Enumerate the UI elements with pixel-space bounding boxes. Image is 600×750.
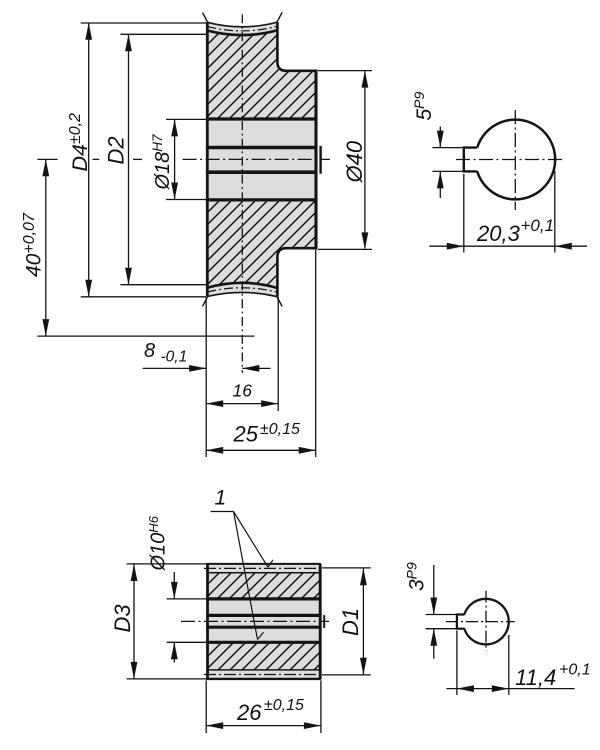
dimension 25 arrow left <box>206 447 223 454</box>
svg-text:16: 16 <box>233 381 253 401</box>
dimension dia10 extension line bottom <box>167 641 207 643</box>
pitch dash-dot arc top <box>207 26 277 31</box>
extension line right face down <box>277 297 279 411</box>
dimension D4 line <box>88 23 90 297</box>
svg-text:+0,1: +0,1 <box>521 216 555 235</box>
horizontal centerline segment b <box>93 158 100 160</box>
pinion horizontal centerline <box>181 620 329 622</box>
dimension 25 arrow right <box>299 447 316 454</box>
svg-text:20,3: 20,3 <box>476 221 521 246</box>
dimension 3P9 arrow top <box>430 598 437 615</box>
side view keyway slot <box>464 148 477 172</box>
pinion pitch dash-dot line top <box>204 567 323 569</box>
dimension D4 extension line bottom <box>81 296 206 298</box>
vertical centerline <box>241 14 243 373</box>
dimension 40 line <box>45 159 47 336</box>
worm wheel upper hatched area <box>207 30 315 119</box>
corner tick bottom-right <box>277 297 282 307</box>
side view bore circle with keyway gap <box>477 120 555 200</box>
dimension dia40 line <box>364 71 366 249</box>
dimension 3P9 arrow bottom <box>430 629 437 646</box>
worm axis line <box>37 335 254 337</box>
dimension 20,3 arrow left <box>447 243 464 250</box>
dimension D3 line <box>133 564 135 679</box>
dimension 3P9 line upper <box>433 565 435 615</box>
dimension D1 arrow bottom <box>360 658 367 675</box>
small bore circle with keyway gap <box>464 599 508 645</box>
svg-text:26: 26 <box>236 700 262 725</box>
dimension dia18 line <box>174 119 176 199</box>
part label leader to keyway <box>234 512 264 640</box>
pinion left face outline <box>206 564 209 679</box>
pinion bore bottom edge line <box>206 641 321 644</box>
pinion tip line bottom <box>206 678 321 680</box>
keyway lower edge line <box>206 170 317 174</box>
worm wheel tip thin arc bottom <box>207 292 277 296</box>
pinion right face outline <box>319 564 322 679</box>
dimension 11,4 extension line right <box>508 635 510 695</box>
extension line hub face down <box>315 250 317 457</box>
svg-text:8: 8 <box>144 340 155 362</box>
dimension dia40 extension line bottom <box>318 248 372 250</box>
dimension 26 extension line right <box>320 680 322 733</box>
dimension 3P9 extension line top <box>426 614 465 616</box>
dimension 26 extension line left <box>205 680 207 733</box>
dimension 26 arrow right <box>304 722 321 729</box>
dimension D3 arrow top <box>131 564 138 581</box>
dimension dia40 extension line top <box>318 70 372 72</box>
bore top edge line <box>206 117 317 120</box>
svg-text:D1: D1 <box>338 608 363 636</box>
dimension 25 line <box>206 449 316 451</box>
dimension 5P9 arrow top <box>437 131 444 148</box>
dimension D1 extension line top <box>322 567 371 569</box>
horizontal centerline segment c <box>133 158 142 160</box>
dimension D1 arrow top <box>360 568 367 585</box>
svg-text:D3: D3 <box>110 604 135 633</box>
dimension 16 arrow right <box>261 400 278 407</box>
dimension 40 arrow bottom <box>42 319 49 336</box>
dimension 20,3 arrow right <box>555 243 572 250</box>
svg-text:±0,15: ±0,15 <box>260 421 300 438</box>
pitch dash-dot arc bottom <box>207 288 277 292</box>
svg-text:1: 1 <box>215 487 227 510</box>
dimension D2 arrow top <box>125 34 132 51</box>
right face outline with fillet and step top <box>277 22 317 71</box>
dimension dia18 extension line bottom <box>166 199 207 201</box>
dimension D1 extension line bottom <box>322 674 371 676</box>
pinion sectional view body fill <box>208 564 320 679</box>
corner tick bottom-left <box>203 296 208 306</box>
dimension dia40 arrow bottom <box>362 232 369 249</box>
svg-text:+0,1: +0,1 <box>559 662 591 679</box>
dimension 5P9 extension line top <box>432 147 464 149</box>
side view horizontal centerline <box>456 159 565 161</box>
dimension dia10 extension line top <box>167 598 207 600</box>
dimension D3 extension line top <box>127 563 207 565</box>
horizontal centerline segment a <box>37 158 57 160</box>
small keyway slot <box>457 615 464 629</box>
dimension dia18 arrow top <box>171 119 178 136</box>
dimension 3P9 line lower <box>433 629 435 659</box>
dimension D2 line <box>128 34 130 284</box>
dimension D4 arrow top <box>85 23 92 40</box>
dimension D2 arrow bottom <box>125 268 132 285</box>
keyway upper edge line <box>206 146 317 150</box>
dimension 8 line right <box>242 367 270 369</box>
side view vertical centerline <box>514 110 516 210</box>
svg-text:25: 25 <box>233 422 259 447</box>
dimension dia18 arrow bottom <box>171 183 178 200</box>
svg-text:±0,15: ±0,15 <box>264 697 304 714</box>
dimension D1 line <box>362 568 364 675</box>
dimension dia10 line lower <box>173 642 175 662</box>
dimension 20,3 extension line left <box>463 174 465 253</box>
worm wheel throat thick arc top <box>207 30 277 35</box>
part label 1 underline <box>211 511 234 513</box>
dimension 3P9 extension line bottom <box>426 628 465 630</box>
dimension 16 arrow left <box>206 400 223 407</box>
part label leader to pitch line <box>234 512 274 568</box>
horizontal centerline main <box>183 158 330 160</box>
pinion root line top <box>208 572 320 574</box>
worm wheel sectional view body fill <box>207 22 315 297</box>
dimension 26 line <box>206 725 321 727</box>
pinion keyway upper edge line <box>206 614 321 617</box>
dimension 8 arrow left <box>189 365 206 372</box>
svg-text:11,4: 11,4 <box>515 665 556 690</box>
dimension 5P9 line upper <box>439 127 441 148</box>
worm wheel throat thick arc bottom <box>207 283 277 288</box>
dimension 26 arrow left <box>206 722 223 729</box>
pinion pitch dash-dot line bottom <box>204 674 323 676</box>
worm wheel tip thin arc top <box>207 22 277 27</box>
dimension D3 extension line bottom <box>127 678 207 680</box>
dimension 8 arrow right <box>242 365 259 372</box>
dimension D4 arrow bottom <box>85 280 92 297</box>
svg-text:-0,1: -0,1 <box>161 349 188 366</box>
dimension dia40 arrow top <box>362 71 369 88</box>
worm wheel lower hatched area <box>207 200 315 288</box>
dimension D2 extension line top <box>120 33 207 35</box>
dimension 5P9 arrow bottom <box>437 171 444 188</box>
dimension 20,3 extension line right <box>554 171 556 253</box>
dimension 11,4 arrow right <box>492 685 509 692</box>
small circle horizontal centerline <box>446 621 515 623</box>
dimension 16 line <box>206 403 278 405</box>
pinion root line bottom <box>208 669 320 671</box>
dimension 40 arrow top <box>42 159 49 176</box>
dimension 11,4 extension line left <box>456 631 458 696</box>
pinion keyway lower edge line <box>206 626 321 629</box>
dimension 11,4 line <box>446 688 574 690</box>
pinion lower hatched band <box>208 642 320 670</box>
dimension 20,3 line <box>429 245 587 247</box>
dimension 5P9 extension line bottom <box>432 170 464 172</box>
dimension dia10 arrow bottom <box>171 642 178 659</box>
dimension 5P9 line lower <box>439 171 441 198</box>
dimension dia10 arrow top <box>171 582 178 599</box>
dimension 11,4 arrow left <box>457 685 474 692</box>
bore bottom edge line <box>206 198 317 201</box>
svg-text:Ø40: Ø40 <box>342 140 367 183</box>
pinion upper hatched band <box>208 573 320 599</box>
right face outline with fillet and step bottom <box>277 248 317 297</box>
svg-text:D2: D2 <box>104 136 129 164</box>
pinion keyway end edge on right face <box>323 615 325 628</box>
dimension D3 arrow bottom <box>131 662 138 679</box>
hub right face outline <box>314 70 317 250</box>
dimension dia18 extension line top <box>166 118 207 120</box>
dimension dia10 line upper <box>173 572 175 599</box>
dimension 8 line left <box>143 367 207 369</box>
keyway end edge on hub face <box>319 146 321 174</box>
small circle vertical centerline <box>485 591 487 651</box>
pinion tip line top <box>206 563 321 565</box>
dimension D2 extension line bottom <box>120 284 206 286</box>
corner tick top-right <box>277 12 282 22</box>
dimension D4 extension line top <box>81 22 208 24</box>
left face outline <box>206 22 209 296</box>
corner tick top-left <box>203 13 208 23</box>
extension line left face down <box>205 298 207 458</box>
pinion bore top edge line <box>206 597 321 600</box>
